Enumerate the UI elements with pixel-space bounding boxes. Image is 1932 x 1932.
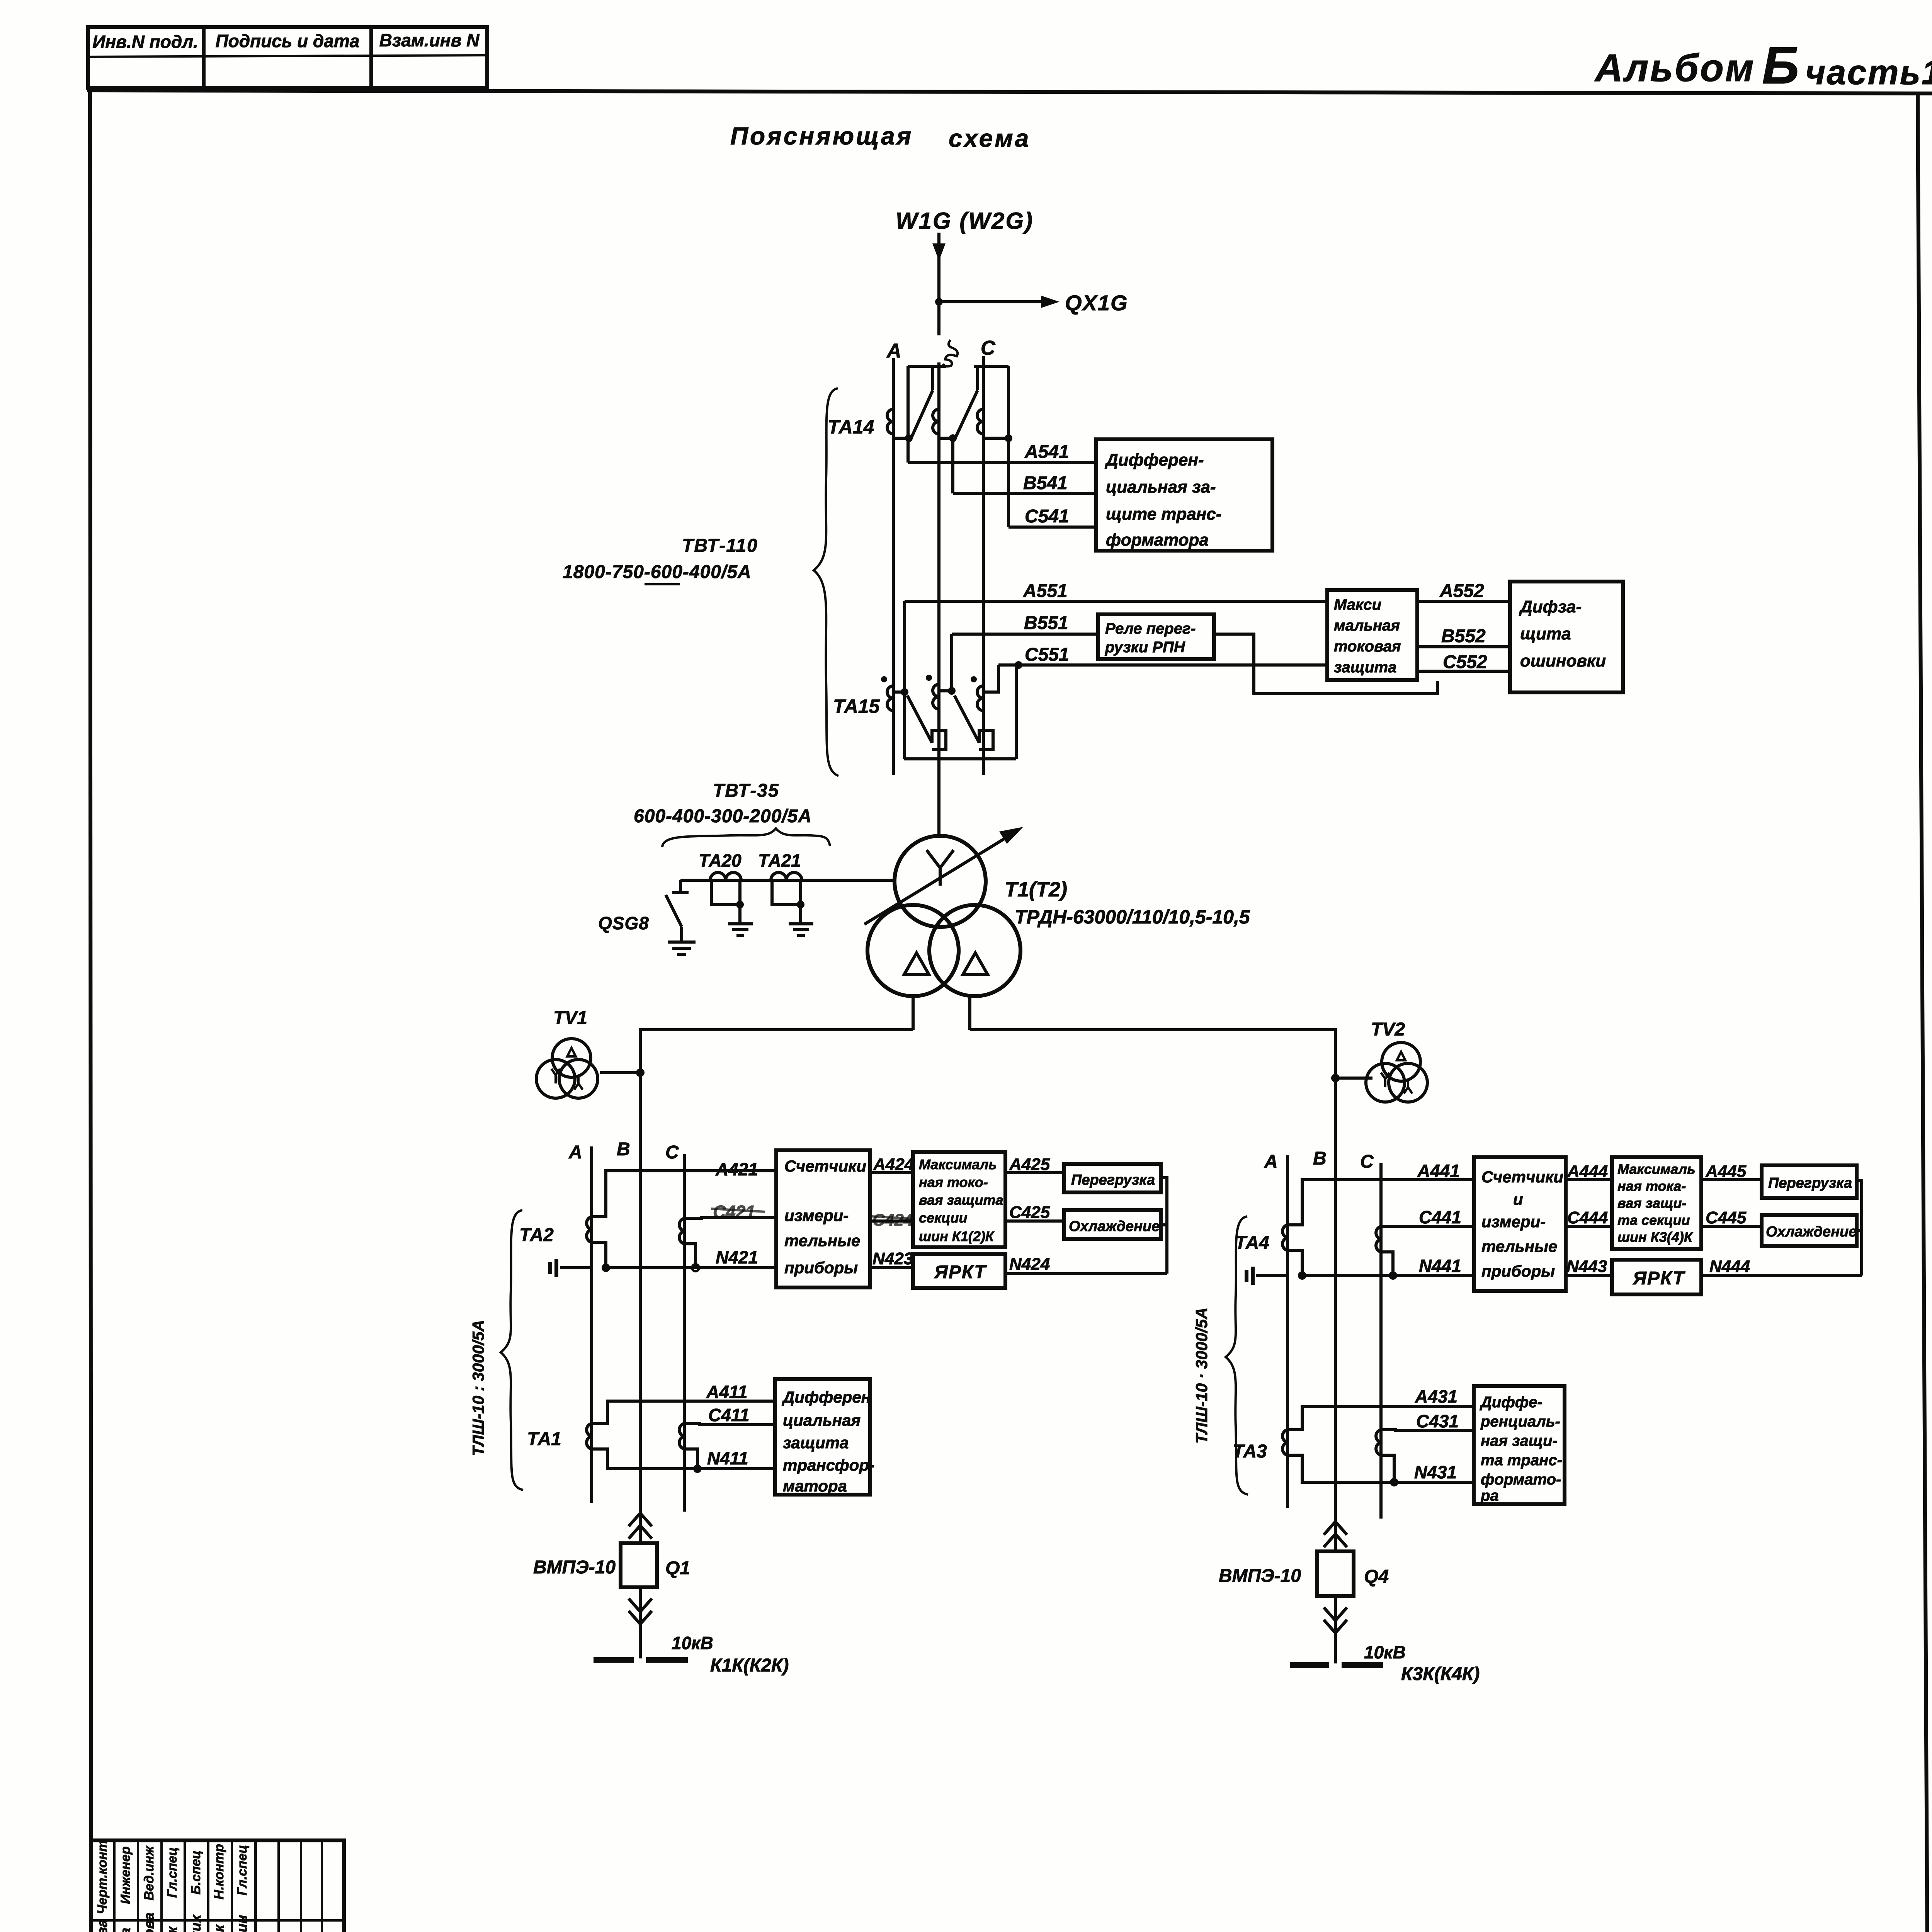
delta symbol LV right <box>963 953 988 975</box>
svg-text:Максималь: Максималь <box>1617 1161 1696 1177</box>
svg-text:N411: N411 <box>707 1448 748 1468</box>
svg-text:600-400-300-200/5А: 600-400-300-200/5А <box>634 806 812 827</box>
svg-text:С411: С411 <box>708 1405 750 1425</box>
svg-text:С444: С444 <box>1567 1208 1608 1227</box>
svg-text:С445: С445 <box>1706 1208 1747 1227</box>
wire 10kV bus left <box>640 1030 913 1136</box>
svg-text:А: А <box>568 1142 582 1163</box>
brace TBT-110 group <box>814 388 838 776</box>
wire phase C (110kV side) <box>982 356 985 775</box>
wire Q1 to 10kV busbar <box>639 1587 642 1658</box>
TA15 secondary C tap <box>983 661 1022 692</box>
svg-text:Счетчики: Счетчики <box>1481 1168 1563 1186</box>
drawing title <box>730 122 1031 152</box>
label TLSh-10 3000/5A right (rotated) <box>1192 1308 1211 1444</box>
transformer LV lead right <box>968 995 971 1030</box>
svg-text:ТА2: ТА2 <box>519 1225 554 1245</box>
svg-text:Хрипунькова: Хрипунькова <box>141 1912 157 1932</box>
svg-text:N421: N421 <box>716 1247 758 1267</box>
wire B to Q4 <box>1334 1519 1337 1551</box>
ground TA21 <box>789 924 813 935</box>
wire N444 loop right <box>1701 1180 1862 1276</box>
svg-text:ТВТ-110: ТВТ-110 <box>682 536 758 556</box>
svg-text:шин К3(4)К: шин К3(4)К <box>1617 1229 1694 1245</box>
wire phase A (110kV side) <box>892 358 895 775</box>
svg-text:та транс-: та транс- <box>1481 1452 1562 1469</box>
svg-text:токовая: токовая <box>1334 638 1401 655</box>
transformer T1(T2) LV winding circle right <box>929 905 1020 996</box>
wire phase A right section <box>1286 1155 1289 1508</box>
node phase C label right section <box>1360 1151 1374 1172</box>
wire N421 <box>560 1242 776 1272</box>
svg-text:TV1: TV1 <box>553 1008 587 1028</box>
voltage transformer TV2 label <box>1371 1019 1405 1040</box>
label TA2 <box>519 1225 554 1245</box>
svg-text:тельные: тельные <box>1481 1237 1557 1255</box>
svg-text:мальная: мальная <box>1334 617 1400 634</box>
svg-text:матора: матора <box>783 1477 847 1495</box>
svg-text:циальная за-: циальная за- <box>1106 478 1216 497</box>
box YARKT right <box>1612 1260 1701 1294</box>
svg-text:А444: А444 <box>1567 1162 1608 1181</box>
node QX1G label <box>1065 291 1128 315</box>
svg-text:форматора: форматора <box>1106 531 1209 549</box>
brace TBT-35 group <box>662 828 830 847</box>
busbar 10kV right <box>1290 1662 1383 1668</box>
wire W1G vertical drop <box>937 233 940 335</box>
wire C445 <box>1701 1208 1762 1227</box>
svg-text:А445: А445 <box>1705 1162 1747 1181</box>
CT TA20 winding <box>710 872 744 924</box>
disconnector scribble on phase B <box>943 340 957 366</box>
svg-text:Подпись и дата: Подпись и дата <box>216 31 360 51</box>
svg-text:Т1(Т2): Т1(Т2) <box>1005 878 1067 901</box>
TA14 secondary loop left vertical <box>906 366 910 463</box>
TA15 secondary mid vertical <box>939 634 956 695</box>
svg-text:С: С <box>665 1142 679 1163</box>
svg-text:С441: С441 <box>1419 1207 1461 1227</box>
arrow QX1G <box>1041 296 1060 308</box>
svg-text:Лешковских: Лешковских <box>188 1914 204 1932</box>
ground TA20 <box>728 924 753 935</box>
svg-text:щите транс-: щите транс- <box>1106 505 1221 524</box>
CT TA14 phase B winding <box>933 409 953 438</box>
svg-text:Горелик: Горелик <box>164 1926 180 1932</box>
svg-text:N444: N444 <box>1709 1257 1750 1276</box>
svg-text:формато-: формато- <box>1481 1471 1561 1488</box>
label TBT-35 <box>634 781 812 827</box>
ground N421 <box>550 1259 556 1277</box>
svg-text:ТА21: ТА21 <box>758 850 801 871</box>
CT TA3 phase C winding <box>1376 1430 1381 1455</box>
wire A551 <box>905 581 1327 601</box>
label TLSh-10 3000/5A left (rotated) <box>469 1320 487 1456</box>
svg-text:Взам.инв N: Взам.инв N <box>379 30 480 50</box>
svg-text:Диффе-: Диффе- <box>1480 1394 1543 1411</box>
node phase C label left section <box>665 1142 679 1163</box>
svg-text:защита: защита <box>1334 659 1396 676</box>
junction dots TA14 <box>905 434 1012 442</box>
arrow on W1G wire <box>932 243 946 261</box>
box RPN overload relay <box>1098 614 1214 659</box>
svg-text:Q1: Q1 <box>665 1558 690 1578</box>
svg-text:А421: А421 <box>715 1159 758 1179</box>
box maximum current protection (110kV) <box>1327 590 1417 680</box>
wire A552 <box>1417 581 1510 601</box>
svg-text:Инженер: Инженер <box>118 1846 133 1904</box>
svg-text:вая защи-: вая защи- <box>1617 1195 1687 1211</box>
svg-text:QSG8: QSG8 <box>598 913 649 933</box>
wire A445 <box>1701 1162 1762 1181</box>
svg-text:ВМПЭ-10: ВМПЭ-10 <box>533 1557 616 1578</box>
frame left border <box>90 90 92 1932</box>
TA15 secondary bottom rail <box>904 757 1016 760</box>
svg-text:шин К1(2)К: шин К1(2)К <box>919 1228 995 1244</box>
wire A411 <box>592 1382 775 1423</box>
svg-text:Б.спец: Б.спец <box>189 1850 203 1895</box>
CT TA15 phase B winding <box>926 675 939 709</box>
svg-text:А425: А425 <box>1009 1155 1050 1174</box>
label VMPE-10 right <box>1219 1566 1301 1586</box>
CT TA14 phase C winding <box>977 409 1009 438</box>
node phase B label left section <box>617 1139 630 1160</box>
svg-text:ТРДН-63000/110/10,5-10,5: ТРДН-63000/110/10,5-10,5 <box>1015 906 1250 928</box>
svg-text:Дифферен: Дифферен <box>782 1388 871 1406</box>
wire C552 <box>1417 652 1510 672</box>
box meters and instruments right <box>1474 1157 1566 1291</box>
TA15 loop verticals to rail <box>903 692 906 759</box>
box overload left <box>1064 1164 1161 1192</box>
wire A444 <box>1566 1162 1612 1181</box>
earthing switch QSG8 label <box>598 913 649 933</box>
label 10kV right <box>1364 1642 1406 1662</box>
box MTZ section K3(4)K <box>1612 1157 1701 1249</box>
svg-text:и: и <box>1513 1190 1523 1208</box>
svg-text:Макси: Макси <box>1334 596 1381 613</box>
svg-text:С541: С541 <box>1025 506 1069 527</box>
svg-text:ошиновки: ошиновки <box>1520 651 1606 670</box>
svg-text:С552: С552 <box>1443 652 1487 672</box>
svg-text:А411: А411 <box>706 1382 748 1402</box>
svg-text:А: А <box>1264 1151 1278 1172</box>
svg-text:А541: А541 <box>1024 442 1069 462</box>
voltage transformer TV1 label <box>553 1008 587 1028</box>
node phase A label <box>886 340 901 362</box>
wire phase B right section <box>1334 1136 1337 1519</box>
wire RPN relay to MTZ box <box>1214 634 1437 694</box>
svg-text:Никитин: Никитин <box>234 1915 250 1932</box>
svg-text:ТВТ-35: ТВТ-35 <box>713 781 779 801</box>
wire A425 <box>1005 1155 1064 1174</box>
CT TA2 phase C winding <box>679 1218 684 1244</box>
CT TA21 winding <box>771 872 804 924</box>
svg-text:ТА4: ТА4 <box>1235 1233 1269 1253</box>
title block outer border <box>91 1840 344 1932</box>
label TA4 <box>1235 1233 1269 1253</box>
svg-text:Перегрузка: Перегрузка <box>1768 1175 1852 1191</box>
delta symbol LV left <box>904 953 929 975</box>
withdrawable contacts below Q1 <box>629 1599 652 1624</box>
brace TLSh left <box>501 1210 523 1490</box>
box busbar differential protection <box>1510 582 1623 692</box>
voltage transformer TV1 <box>536 1039 598 1098</box>
TA15 secondary left vertical <box>893 601 908 696</box>
box MTZ section K1(2)K <box>913 1152 1005 1247</box>
ground N441 <box>1247 1267 1253 1285</box>
svg-text:Гл.спец: Гл.спец <box>235 1845 250 1896</box>
svg-text:та секции: та секции <box>1617 1212 1690 1228</box>
box differential transformer protection left <box>775 1379 874 1495</box>
svg-text:защита: защита <box>783 1434 849 1452</box>
svg-text:часть1: часть1 <box>1805 53 1932 92</box>
svg-text:ная тока-: ная тока- <box>1617 1178 1686 1194</box>
wire C444 <box>1566 1208 1612 1227</box>
svg-text:10кВ: 10кВ <box>1364 1642 1406 1662</box>
label T1(T2) <box>1005 878 1067 901</box>
label TA21 <box>758 850 801 871</box>
CT TA3 phase A winding <box>1282 1430 1287 1455</box>
svg-text:Охлаждение: Охлаждение <box>1766 1224 1857 1240</box>
svg-text:В: В <box>617 1139 630 1160</box>
wire C441 <box>1381 1207 1474 1227</box>
withdrawable contacts above Q1 <box>629 1513 652 1539</box>
withdrawable contacts above Q4 <box>1324 1522 1347 1547</box>
svg-text:щита: щита <box>1520 624 1571 643</box>
svg-text:Альбом: Альбом <box>1594 46 1755 90</box>
svg-text:10кВ: 10кВ <box>672 1633 713 1653</box>
svg-text:С431: С431 <box>1416 1411 1459 1431</box>
box cooling right <box>1762 1215 1857 1246</box>
svg-text:Дифза-: Дифза- <box>1519 597 1582 616</box>
current transformer TA14 label <box>828 416 874 438</box>
svg-text:В: В <box>1313 1148 1327 1169</box>
wire A424 <box>870 1155 914 1174</box>
svg-text:ра: ра <box>1480 1487 1499 1504</box>
CT TA1 phase A winding <box>587 1423 592 1449</box>
label TA1 <box>527 1429 561 1449</box>
wire phase C right section <box>1379 1163 1383 1519</box>
wire B541 <box>953 438 1096 493</box>
CT TA15 phase A winding <box>881 676 893 711</box>
wire TV1 stub <box>600 1068 645 1077</box>
wire A421 <box>592 1159 776 1217</box>
box meters and instruments left <box>776 1150 870 1287</box>
svg-text:ЯРКТ: ЯРКТ <box>1632 1268 1685 1289</box>
node K3K(K4K) <box>1401 1664 1480 1684</box>
transformer T1(T2) HV winding circle <box>895 836 986 927</box>
wire phase A left section <box>590 1146 593 1503</box>
svg-text:трансфор-: трансфор- <box>783 1456 874 1474</box>
svg-text:приборы: приборы <box>784 1259 858 1277</box>
wire C424 <box>870 1211 913 1230</box>
svg-text:ная защи-: ная защи- <box>1481 1432 1558 1449</box>
svg-text:А552: А552 <box>1439 581 1484 601</box>
tap changer arrow <box>864 827 1023 924</box>
svg-text:Иванова: Иванова <box>117 1928 133 1932</box>
svg-text:измери-: измери- <box>1481 1213 1546 1231</box>
node phase C label <box>981 337 996 359</box>
wire 10kV bus right <box>970 1030 1335 1136</box>
svg-text:Счетчики: Счетчики <box>784 1157 866 1175</box>
svg-text:приборы: приборы <box>1481 1262 1555 1280</box>
node K1K(K2K) <box>710 1655 789 1676</box>
CT TA4 phase C winding <box>1376 1226 1381 1252</box>
svg-text:ная токо-: ная токо- <box>919 1174 988 1190</box>
wire C551 <box>998 645 1327 665</box>
svg-text:ТЛШ-10 : 3000/5А: ТЛШ-10 : 3000/5А <box>469 1320 487 1456</box>
wire N411 <box>592 1448 775 1473</box>
svg-text:Б: Б <box>1762 36 1799 95</box>
wire C425 <box>1005 1203 1064 1222</box>
frame right border <box>1918 93 1931 1932</box>
svg-text:Черт.конт: Черт.конт <box>95 1840 110 1914</box>
wire C431 <box>1381 1411 1474 1431</box>
svg-text:N443: N443 <box>1566 1257 1607 1276</box>
wire B552 <box>1417 626 1510 647</box>
node W1G (W2G) incoming line label <box>896 208 1034 234</box>
wire N431 <box>1287 1455 1474 1486</box>
label TVT-110 <box>563 536 758 584</box>
title block signature row lines <box>91 1920 344 1932</box>
CT TA14 phase A winding <box>887 409 909 438</box>
brace TLSh right <box>1226 1216 1248 1495</box>
current transformer TA15 label <box>833 696 880 717</box>
CT TA4 phase A winding <box>1282 1225 1287 1250</box>
frame top border <box>87 90 1932 94</box>
transformer LV lead left <box>912 996 915 1030</box>
voltage transformer TV2 <box>1366 1043 1427 1102</box>
svg-text:QX1G: QX1G <box>1065 291 1128 315</box>
TA15 transposition diagonal A <box>907 696 946 750</box>
svg-text:вая защита: вая защита <box>919 1192 1003 1208</box>
node phase A label right section <box>1264 1151 1278 1172</box>
svg-text:А551: А551 <box>1023 581 1068 601</box>
album heading top right <box>1594 36 1932 95</box>
svg-text:Тимофеева: Тимофеева <box>94 1919 110 1932</box>
ground QSG8 <box>668 942 696 954</box>
svg-text:ренциаль-: ренциаль- <box>1480 1413 1560 1430</box>
box differential transformer protection right <box>1474 1386 1565 1504</box>
svg-text:Максималь: Максималь <box>919 1156 997 1172</box>
label TA3 <box>1233 1441 1267 1462</box>
wire N441 <box>1256 1250 1474 1280</box>
earthing switch QSG8 <box>666 880 689 942</box>
svg-text:измери-: измери- <box>784 1206 849 1225</box>
svg-text:W1G (W2G): W1G (W2G) <box>896 208 1034 234</box>
wire N424 loop left <box>1005 1178 1167 1274</box>
svg-text:А424: А424 <box>873 1155 914 1174</box>
CT TA1 phase C winding <box>679 1423 684 1449</box>
wire C421 (corrected) <box>684 1202 776 1222</box>
svg-text:Дифферен-: Дифферен- <box>1104 451 1204 469</box>
svg-text:Охлаждение: Охлаждение <box>1069 1218 1160 1235</box>
withdrawable contacts below Q4 <box>1324 1607 1347 1633</box>
svg-text:TV2: TV2 <box>1371 1019 1405 1040</box>
wire TV2 stub <box>1331 1074 1372 1082</box>
svg-text:N441: N441 <box>1419 1256 1461 1276</box>
box YARKT left <box>913 1254 1005 1288</box>
svg-text:N423: N423 <box>872 1249 913 1268</box>
node phase A label left section <box>568 1142 582 1163</box>
star symbol HV winding <box>927 850 954 886</box>
TA15 secondary right vertical <box>1015 665 1018 759</box>
svg-text:схема: схема <box>949 124 1031 152</box>
wire C411 <box>684 1405 775 1425</box>
svg-text:К3К(К4К): К3К(К4К) <box>1401 1664 1480 1684</box>
svg-text:В541: В541 <box>1023 473 1068 493</box>
svg-text:ТА14: ТА14 <box>828 416 874 438</box>
svg-text:Н.контр: Н.контр <box>212 1844 226 1900</box>
svg-text:ТА3: ТА3 <box>1233 1441 1267 1462</box>
svg-text:С424: С424 <box>872 1211 913 1230</box>
title block role labels <box>95 1840 250 1914</box>
title block name labels <box>94 1912 250 1932</box>
TA15 transposition diagonal B <box>954 696 993 750</box>
svg-text:К1К(К2К): К1К(К2К) <box>710 1655 789 1676</box>
TA14 transposition diagonal B <box>955 367 978 438</box>
top-left inventory table <box>88 27 487 88</box>
svg-text:циальная: циальная <box>783 1411 861 1429</box>
CT TA2 phase A winding <box>587 1217 592 1242</box>
svg-text:В552: В552 <box>1441 626 1486 646</box>
wire phase B left section <box>639 1136 642 1512</box>
busbar 10kV left <box>594 1657 688 1663</box>
svg-text:Q4: Q4 <box>1364 1566 1389 1587</box>
wire A541 <box>908 442 1096 463</box>
svg-text:Перегрузка: Перегрузка <box>1071 1172 1155 1188</box>
circuit breaker Q1 <box>621 1543 657 1587</box>
svg-text:рузки РПН: рузки РПН <box>1105 639 1185 656</box>
box differential transformer protection (110kV) <box>1096 439 1272 551</box>
svg-text:А441: А441 <box>1417 1161 1460 1181</box>
circuit breaker Q4 <box>1317 1551 1354 1596</box>
wire phase C left section <box>683 1154 686 1512</box>
wire B551 <box>952 613 1098 634</box>
wire N423 <box>870 1249 913 1268</box>
svg-text:тельные: тельные <box>784 1231 860 1250</box>
wire N443 <box>1566 1257 1612 1276</box>
svg-text:ЯРКТ: ЯРКТ <box>934 1262 987 1282</box>
svg-text:Поясняющая: Поясняющая <box>730 122 913 150</box>
label VMPE-10 left <box>533 1557 616 1578</box>
TA14 secondary loop right vertical <box>1007 366 1010 527</box>
label TA20 <box>699 850 742 871</box>
box cooling left <box>1064 1210 1161 1239</box>
svg-text:секции: секции <box>919 1210 968 1226</box>
transformer T1(T2) LV winding circle left <box>867 905 959 996</box>
wire phase B (110kV side) <box>937 362 940 837</box>
wire A441 <box>1287 1161 1474 1225</box>
svg-text:С: С <box>1360 1151 1374 1172</box>
svg-text:С425: С425 <box>1009 1203 1050 1222</box>
svg-text:1800-750-600-400/5А: 1800-750-600-400/5А <box>563 562 752 582</box>
svg-text:С551: С551 <box>1025 645 1069 665</box>
TA14 transposition diagonal A <box>911 367 933 438</box>
svg-text:ТА1: ТА1 <box>527 1429 561 1449</box>
svg-text:ТА20: ТА20 <box>699 850 742 871</box>
label Q1 <box>665 1558 690 1578</box>
title block signature column lines <box>114 1840 322 1932</box>
wire 35kV link to transformer <box>680 879 895 882</box>
svg-text:Горелик: Горелик <box>211 1924 227 1932</box>
svg-text:В551: В551 <box>1024 613 1068 633</box>
svg-text:Гл.спец: Гл.спец <box>165 1847 180 1898</box>
wire C541 <box>1009 506 1096 527</box>
svg-text:А431: А431 <box>1415 1386 1458 1406</box>
box overload right <box>1762 1165 1857 1198</box>
wire QX1G branch <box>935 298 1050 306</box>
wire A431 <box>1287 1386 1474 1430</box>
